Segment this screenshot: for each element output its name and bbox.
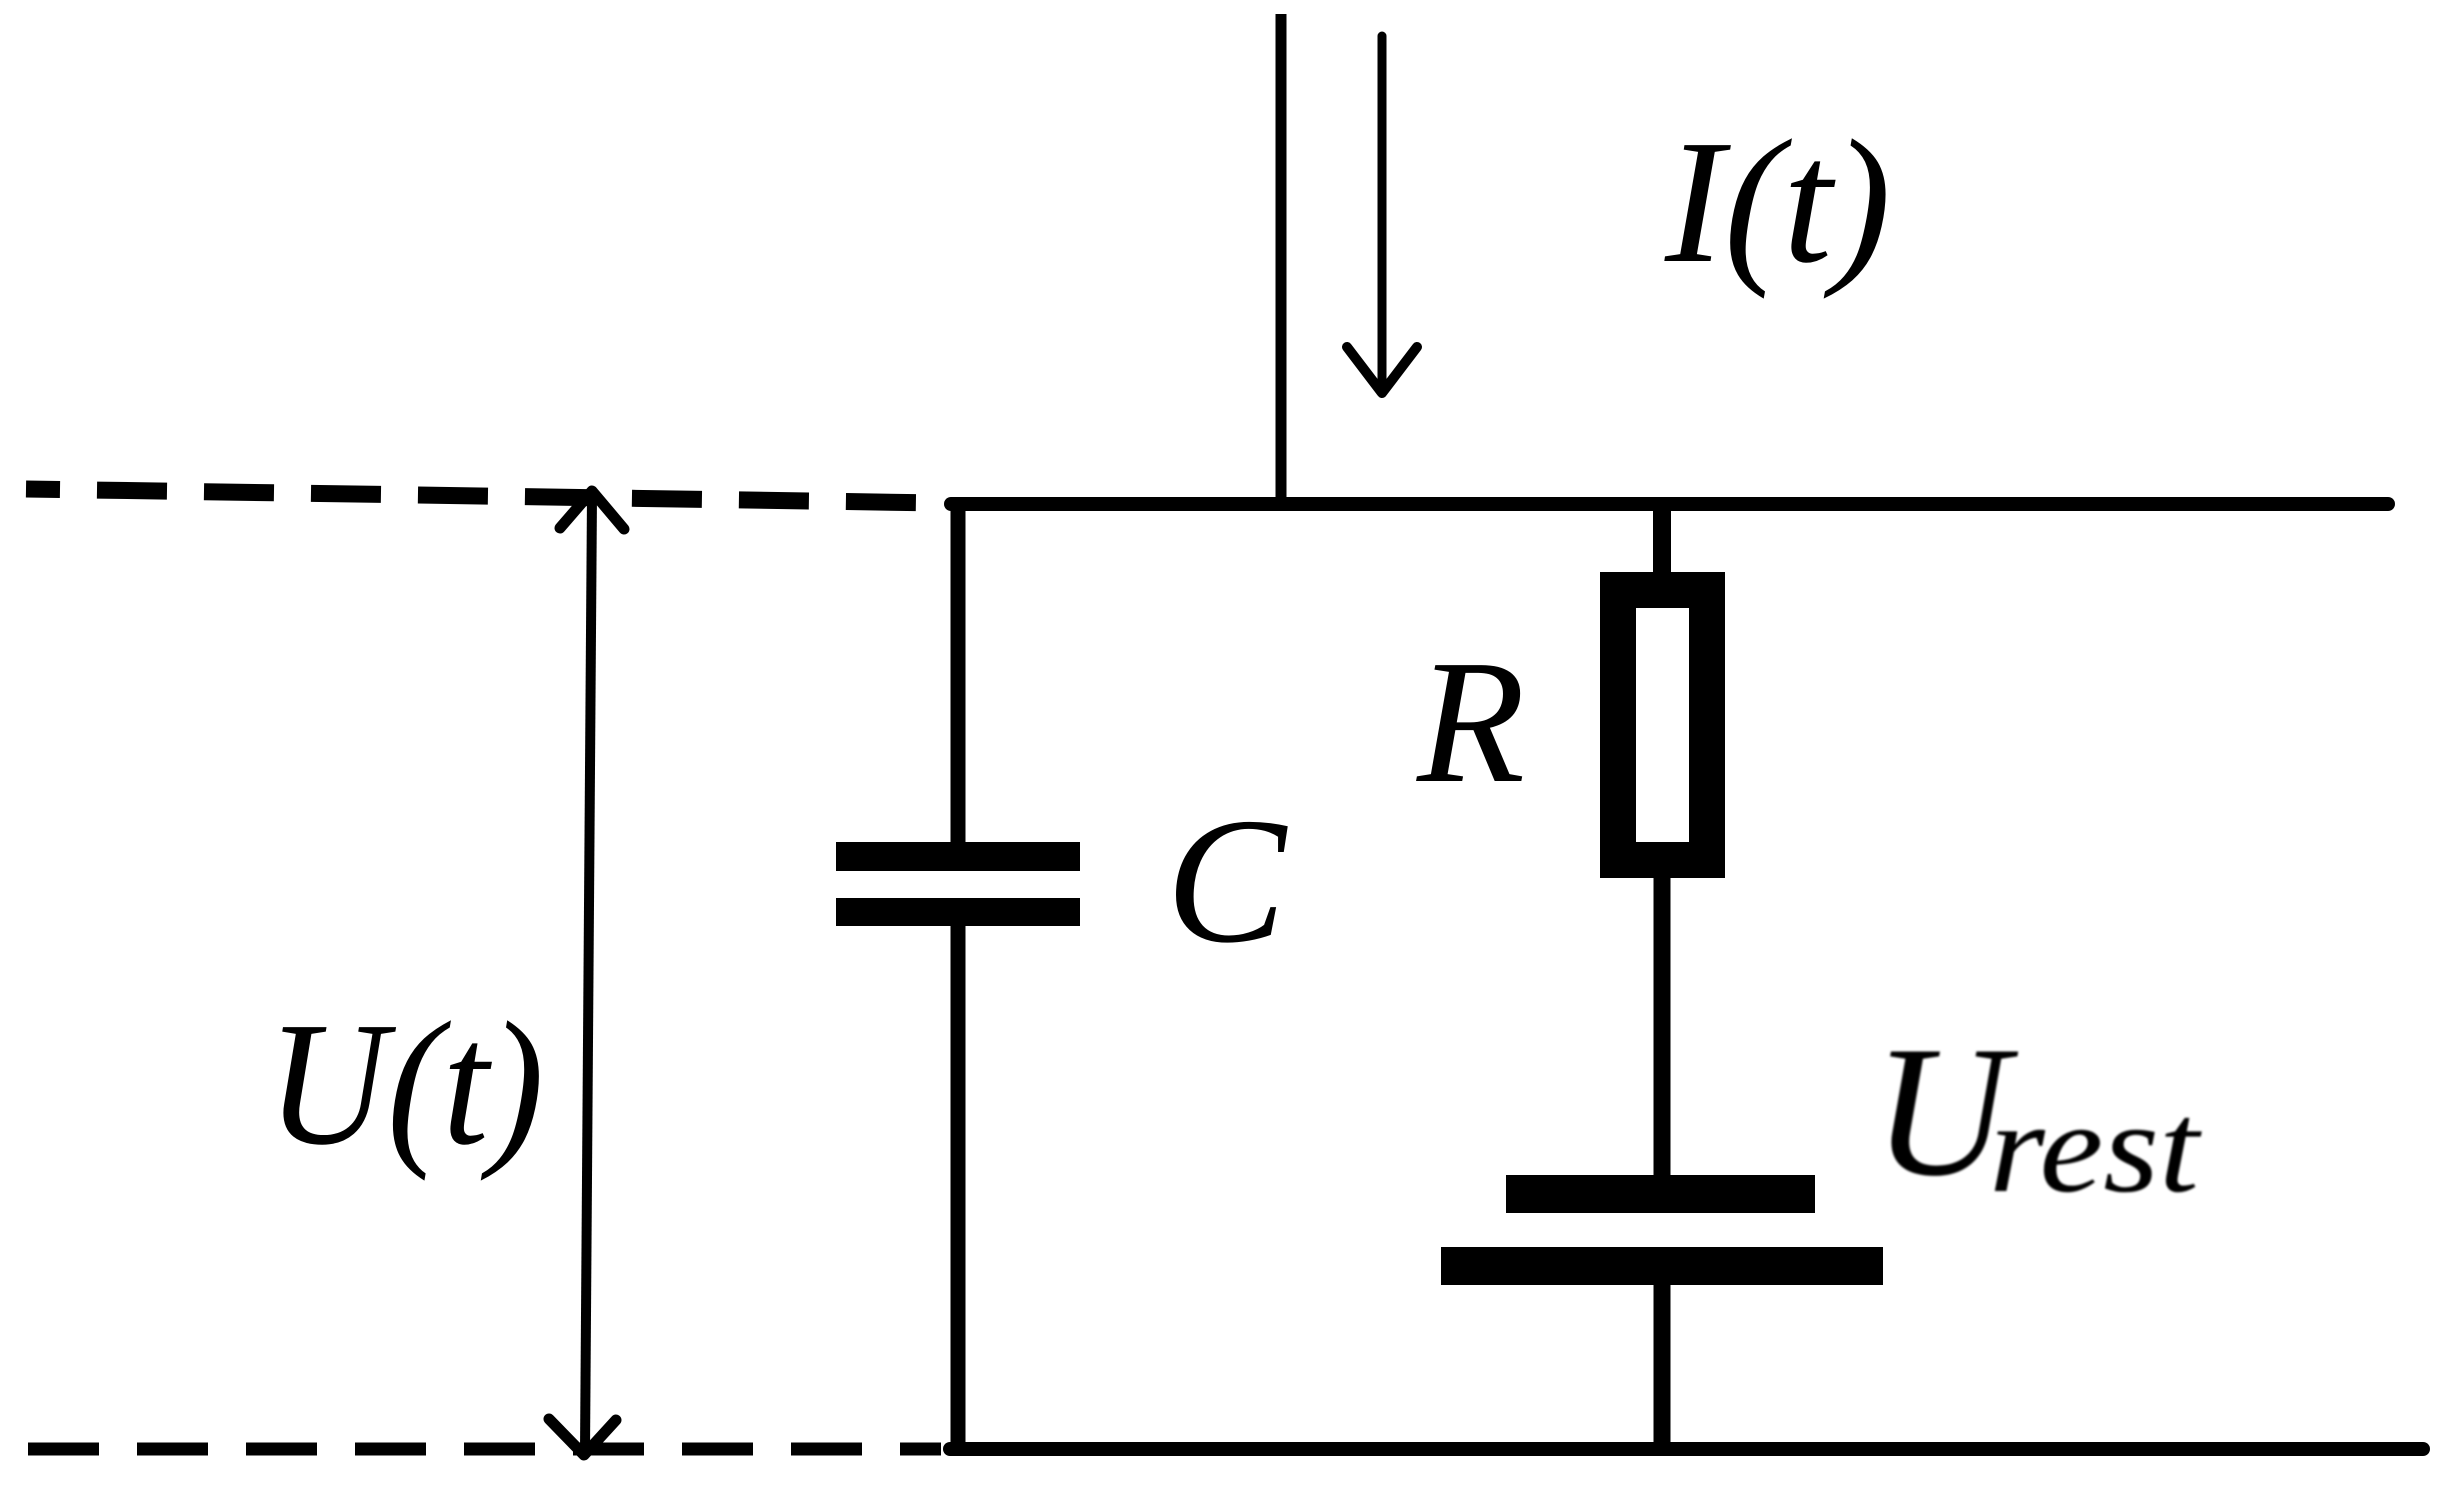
capacitor C (836, 842, 1080, 926)
voltage arrow head top (560, 491, 624, 529)
svg-text:rest: rest (1989, 1075, 2202, 1219)
wire capacitor branch upper (951, 497, 966, 845)
wire battery bottom lead (1654, 1285, 1671, 1449)
svg-text:C: C (1166, 781, 1288, 980)
node bottom dashed net (ground reference) (28, 1443, 941, 1456)
wire bottom rail (950, 1442, 2423, 1456)
label U_rest (1873, 1008, 2202, 1219)
current direction arrow I(t) (1347, 36, 1417, 393)
svg-text:I(t): I(t) (1664, 104, 1891, 300)
voltage measure arrow U(t) shaft (585, 495, 592, 1451)
label R (1416, 624, 1525, 820)
label C (1166, 781, 1288, 980)
resistor R (1618, 590, 1707, 860)
svg-text:U(t): U(t) (267, 986, 544, 1182)
svg-text:R: R (1416, 624, 1525, 820)
wire top rail (951, 497, 2388, 511)
node top dashed net (membrane top reference) (26, 489, 941, 503)
voltage arrow head bottom (549, 1419, 616, 1455)
wire capacitor branch lower (951, 923, 966, 1449)
wire resistor top lead (1653, 504, 1671, 578)
wire input current lead (1276, 14, 1287, 504)
label I(t) (1664, 104, 1891, 300)
wire resistor to battery (1654, 878, 1671, 1177)
label U(t) (267, 986, 544, 1182)
battery U_rest plate long (1441, 1247, 1883, 1285)
battery U_rest plate short (1506, 1175, 1815, 1213)
